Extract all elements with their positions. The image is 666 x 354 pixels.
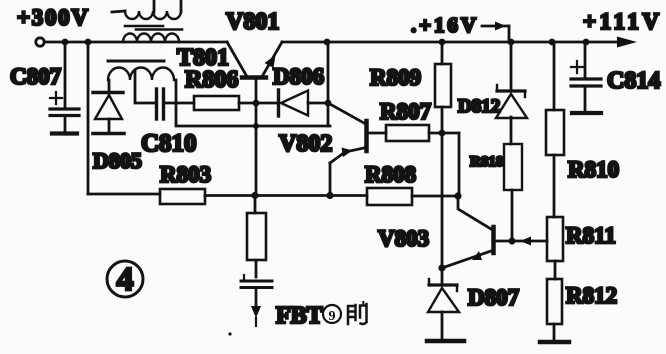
wire +16V arrow into rail [482, 22, 509, 43]
svg-text:R818: R818 [470, 154, 503, 170]
wire V802 emitter down [329, 163, 332, 196]
svg-text:C807: C807 [10, 64, 61, 89]
junction C814 tap [583, 39, 590, 46]
resistor R810 [546, 42, 564, 217]
stray dot [228, 332, 231, 335]
wire R809 down to D807 node [441, 107, 444, 268]
junction V801 emitter corner [324, 39, 331, 46]
junction D805 branch [85, 39, 92, 46]
transistor V803 [442, 196, 547, 268]
terminal +300V [36, 38, 44, 46]
svg-text:R807: R807 [380, 99, 431, 124]
junction base line crossing [253, 123, 259, 129]
resistor R806 [194, 96, 256, 110]
junction C807 tap [62, 39, 69, 46]
ground C814 [572, 111, 601, 115]
resistor R809 [435, 42, 451, 107]
svg-text:4: 4 [117, 261, 134, 298]
svg-text:C814: C814 [607, 68, 660, 94]
arrow to FBT [251, 306, 261, 326]
svg-text:V801: V801 [226, 9, 279, 35]
ground R812 [540, 340, 569, 345]
resistor FBT series [247, 196, 266, 277]
transformer T801 core [125, 26, 182, 30]
svg-text:D812: D812 [458, 96, 500, 117]
junction V803 collector node [454, 192, 461, 199]
wire V801 base vertical [255, 80, 258, 196]
junction R807 crossing [439, 130, 446, 137]
wire R811 to R812 [554, 261, 557, 279]
wire bottom bus left [88, 193, 160, 196]
diode D805 [93, 80, 124, 134]
transformer T801 primary winding [123, 34, 179, 43]
svg-text:+111V: +111V [583, 9, 659, 34]
svg-text:V802: V802 [279, 131, 332, 157]
resistor R818 [504, 144, 522, 241]
svg-text:R811: R811 [566, 223, 616, 248]
ground D807 [427, 339, 464, 344]
transistor V801 [227, 42, 282, 78]
wire V802 collector feed vertical [327, 42, 330, 126]
wire top rail left [45, 41, 227, 44]
resistor R808 [367, 188, 458, 205]
svg-text:D807: D807 [468, 285, 519, 310]
junction D812 tap [508, 39, 515, 46]
zener D807 [428, 268, 459, 339]
svg-text:V803: V803 [378, 226, 429, 251]
symbol circled 4 [107, 261, 143, 298]
capacitor FBT coupling [241, 275, 272, 308]
resistor R803 [160, 189, 367, 204]
resistor R812 [547, 279, 562, 340]
transformer T801 top winding [112, 0, 181, 19]
wire top rail right with arrow end [282, 41, 630, 44]
svg-text:R809: R809 [370, 65, 421, 90]
junction emitter D807 [438, 264, 445, 271]
transformer T801 feedback winding [108, 67, 174, 80]
svg-text:+300V: +300V [17, 5, 88, 30]
svg-text:9: 9 [329, 309, 336, 324]
transformer T801 lower core [108, 60, 164, 63]
junction R810 tap [549, 39, 556, 46]
junction FBT branch [251, 192, 258, 199]
svg-text:R810: R810 [568, 157, 619, 182]
ground C807 [52, 131, 77, 135]
junction R806/base [253, 100, 260, 107]
svg-text:FBT: FBT [276, 303, 323, 329]
svg-text:C810: C810 [141, 130, 197, 157]
svg-text:D805: D805 [93, 148, 142, 173]
svg-text:.+16V: .+16V [411, 13, 476, 37]
svg-text:R806: R806 [185, 67, 238, 93]
wire R807 to V803 collector node [458, 133, 461, 196]
junction R818 to base line [508, 237, 515, 244]
svg-text:D806: D806 [273, 64, 324, 89]
wire winding right end down to base line [176, 80, 330, 126]
resistor R807 [386, 125, 459, 141]
zener D812 [496, 42, 527, 144]
capacitor C814 [571, 42, 601, 111]
diode D806 [256, 90, 329, 116]
junction V802 emitter [326, 192, 333, 199]
transistor V802 [328, 103, 386, 163]
junction D806 node [325, 100, 332, 107]
svg-text:R803: R803 [160, 162, 211, 187]
capacitor C810 [135, 71, 194, 119]
svg-text:R808: R808 [365, 162, 416, 187]
capacitor C807 [50, 42, 79, 131]
junction R809 tap [439, 39, 446, 46]
svg-text:R812: R812 [566, 283, 617, 308]
wire left branch vertical [87, 42, 90, 194]
resistor R811 [547, 217, 563, 261]
label FBT pin 9 [276, 302, 367, 329]
